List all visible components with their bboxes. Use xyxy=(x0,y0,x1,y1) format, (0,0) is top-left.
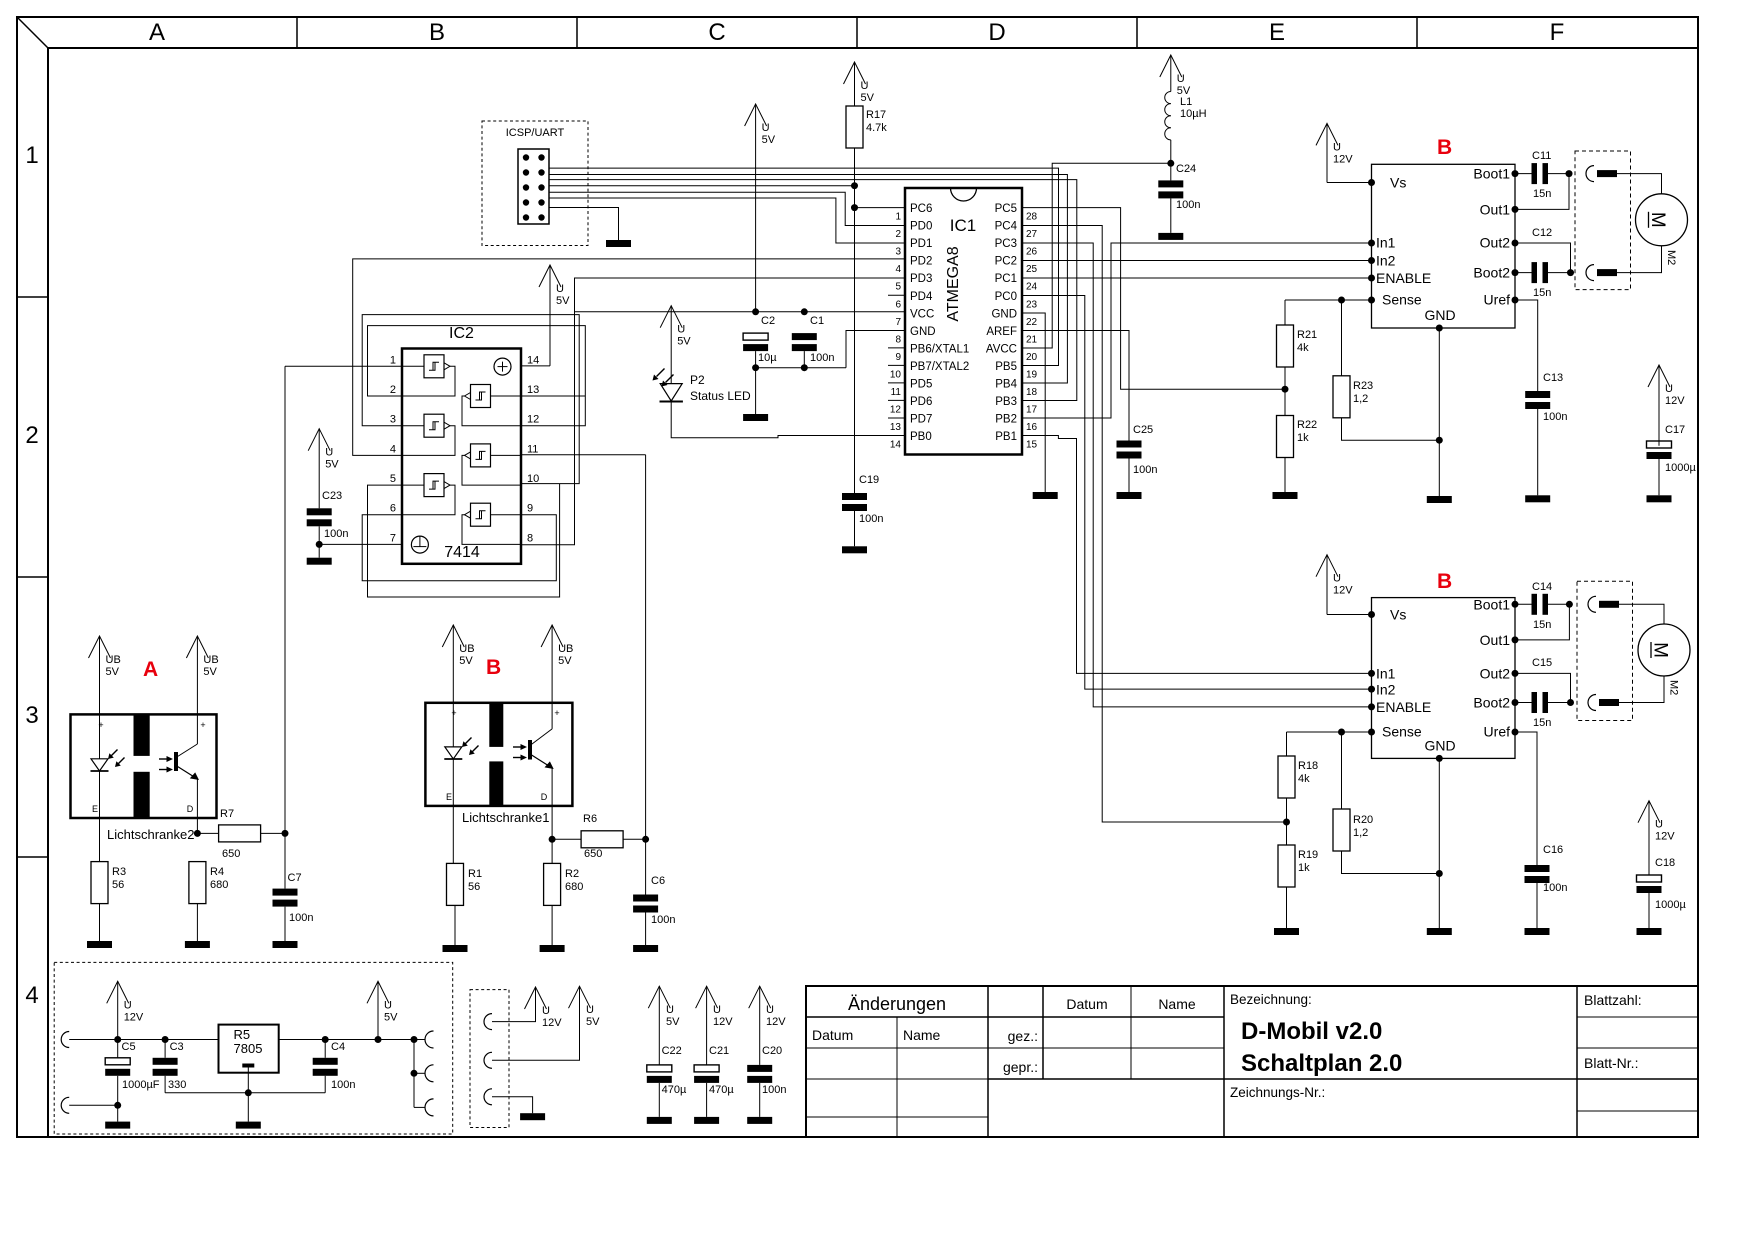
wire IC1 pin 10 stub xyxy=(888,364,905,366)
svg-text:PC2: PC2 xyxy=(995,256,1017,268)
svg-text:U: U xyxy=(124,999,132,1011)
ground R19 xyxy=(1274,928,1299,935)
driver B2 pin labels xyxy=(1376,596,1510,753)
led Lichtschranke2 emitter xyxy=(91,750,125,862)
driver B2 pin dots xyxy=(1368,601,1519,762)
svg-text:PD1: PD1 xyxy=(910,238,932,250)
svg-text:UB: UB xyxy=(558,643,573,655)
title block text D-Mobil v2.0 xyxy=(1241,1018,1382,1045)
capacitor C16 xyxy=(1525,844,1568,928)
svg-text:U: U xyxy=(1333,141,1341,153)
svg-text:PB2: PB2 xyxy=(995,413,1017,425)
svg-text:C23: C23 xyxy=(322,490,342,502)
title block label Blatt-Nr.: xyxy=(1584,1055,1638,1071)
connector motor 2 pin A xyxy=(1588,596,1619,612)
title block label Bezeichnung: xyxy=(1230,992,1312,1007)
svg-text:PD4: PD4 xyxy=(910,291,933,303)
ground C22 xyxy=(647,1117,672,1124)
svg-text:UB: UB xyxy=(106,654,121,666)
svg-text:10µ: 10µ xyxy=(758,352,777,364)
power U 12V P1 xyxy=(525,987,563,1029)
svg-text:56: 56 xyxy=(112,879,124,891)
svg-text:D: D xyxy=(541,792,548,802)
capacitor C24 xyxy=(1158,163,1200,233)
svg-text:M2: M2 xyxy=(1665,250,1677,265)
capacitor C6 xyxy=(633,839,675,945)
svg-text:AREF: AREF xyxy=(986,326,1017,338)
svg-text:R23: R23 xyxy=(1353,380,1373,392)
junction R18 R19 xyxy=(1283,819,1290,826)
svg-text:Out1: Out1 xyxy=(1480,632,1511,648)
svg-text:C1: C1 xyxy=(810,315,824,327)
svg-text:C2: C2 xyxy=(761,315,775,327)
svg-text:100n: 100n xyxy=(651,914,675,926)
svg-text:12V: 12V xyxy=(1333,585,1353,597)
connector 5V output pin 2 xyxy=(425,1065,434,1082)
svg-text:R22: R22 xyxy=(1297,419,1317,431)
svg-text:100n: 100n xyxy=(762,1084,786,1096)
svg-text:Uref: Uref xyxy=(1484,724,1511,740)
svg-text:R7: R7 xyxy=(220,808,234,820)
svg-text:16: 16 xyxy=(1026,422,1038,433)
motor M2 upper xyxy=(1636,194,1688,265)
power UB 5V LS2 transistor xyxy=(186,636,218,740)
capacitor C1 xyxy=(792,315,835,368)
wire IC1 pin 13 stub xyxy=(888,417,905,419)
junction AVCC C24 xyxy=(1167,160,1174,167)
svg-text:Uref: Uref xyxy=(1484,292,1511,308)
svg-text:U: U xyxy=(677,324,685,336)
svg-text:In1: In1 xyxy=(1376,665,1396,681)
label Lichtschranke2 xyxy=(107,827,194,842)
svg-text:ENABLE: ENABLE xyxy=(1376,270,1431,286)
wire IC1 pin 12 stub xyxy=(888,399,905,401)
svg-text:5V: 5V xyxy=(762,134,776,146)
capacitor C3 xyxy=(153,1040,187,1093)
svg-text:R3: R3 xyxy=(112,866,126,878)
svg-text:A: A xyxy=(149,19,165,46)
svg-text:U: U xyxy=(713,1004,721,1016)
wire B2 Out2 xyxy=(1515,673,1571,702)
title block label Zeichnungs-Nr.: xyxy=(1230,1085,1325,1100)
gate IC2 inverter A pins 1-2 xyxy=(402,355,455,396)
wire IC2 pin 3 to pin 10 loop xyxy=(362,315,579,484)
svg-text:21: 21 xyxy=(1026,334,1038,345)
svg-text:1: 1 xyxy=(390,354,396,366)
svg-text:F: F xyxy=(1550,19,1565,46)
ground R2 xyxy=(540,945,565,952)
svg-text:8: 8 xyxy=(895,334,901,345)
power UB 5V LS1 led xyxy=(442,625,474,747)
junction LS2 output xyxy=(194,830,201,837)
column dividers xyxy=(297,17,1417,48)
svg-text:Out2: Out2 xyxy=(1480,665,1511,681)
svg-text:U: U xyxy=(861,80,869,92)
svg-text:R6: R6 xyxy=(583,813,597,825)
svg-text:Schaltplan 2.0: Schaltplan 2.0 xyxy=(1241,1050,1402,1077)
svg-text:Blattzahl:: Blattzahl: xyxy=(1584,992,1642,1008)
svg-text:100n: 100n xyxy=(810,352,834,364)
svg-text:U: U xyxy=(666,1004,674,1016)
resistor R2 xyxy=(544,839,584,945)
ground R1 xyxy=(443,945,468,952)
capacitor C2 xyxy=(743,315,777,368)
ground C23 xyxy=(307,558,332,565)
svg-text:1: 1 xyxy=(25,142,38,169)
svg-text:R17: R17 xyxy=(866,109,886,121)
capacitor C15 xyxy=(1515,657,1571,729)
svg-text:R5: R5 xyxy=(234,1027,251,1042)
title block label Aenderungen xyxy=(848,994,946,1014)
svg-text:5V: 5V xyxy=(384,1011,398,1023)
svg-text:R19: R19 xyxy=(1298,849,1318,861)
svg-text:gez.:: gez.: xyxy=(1008,1028,1038,1044)
wire IC2 pin 13 xyxy=(521,395,585,397)
gate IC2 inverter B pins 3-4 xyxy=(402,414,455,455)
svg-text:PD5: PD5 xyxy=(910,378,932,390)
svg-text:680: 680 xyxy=(210,879,228,891)
svg-text:PD6: PD6 xyxy=(910,396,932,408)
svg-text:U: U xyxy=(762,122,770,134)
motor M2 lower xyxy=(1638,624,1690,695)
ground C21 xyxy=(694,1117,719,1124)
wire B2 Out1 xyxy=(1515,604,1569,640)
resistor R17 xyxy=(846,106,887,148)
svg-text:E: E xyxy=(1269,19,1285,46)
svg-text:In1: In1 xyxy=(1376,235,1396,251)
junction C1 top xyxy=(801,308,808,315)
svg-text:Boot2: Boot2 xyxy=(1473,695,1510,711)
connector motor 2 dashed box xyxy=(1577,581,1633,720)
svg-text:ENABLE: ENABLE xyxy=(1376,699,1431,715)
svg-text:4k: 4k xyxy=(1298,773,1310,785)
ground C20 xyxy=(747,1117,772,1124)
svg-text:13: 13 xyxy=(890,422,902,433)
capacitor C18 xyxy=(1637,857,1687,928)
junction C5 bottom xyxy=(114,1102,121,1109)
svg-text:15n: 15n xyxy=(1533,188,1551,200)
resistor R23 xyxy=(1333,300,1439,440)
label B1 red B xyxy=(1437,136,1452,159)
svg-text:2: 2 xyxy=(390,384,396,396)
ground C25 xyxy=(1117,492,1142,499)
svg-text:27: 27 xyxy=(1026,229,1038,240)
svg-text:9: 9 xyxy=(527,503,533,515)
svg-text:PD3: PD3 xyxy=(910,273,932,285)
svg-text:7414: 7414 xyxy=(444,544,480,561)
svg-text:12V: 12V xyxy=(124,1011,144,1023)
svg-text:5V: 5V xyxy=(558,655,572,667)
power U 12V C17 xyxy=(1648,365,1685,446)
connector motor 1 dashed box xyxy=(1575,151,1631,290)
svg-text:12: 12 xyxy=(527,414,539,426)
svg-text:28: 28 xyxy=(1026,212,1038,223)
svg-text:Lichtschranke1: Lichtschranke1 xyxy=(462,810,549,825)
svg-text:PD0: PD0 xyxy=(910,221,932,233)
connector 5V output pin 1 xyxy=(425,1031,434,1048)
svg-text:100n: 100n xyxy=(331,1079,355,1091)
connector 12V input pin 1 xyxy=(61,1032,118,1048)
svg-text:Sense: Sense xyxy=(1382,292,1422,308)
junction C3 top xyxy=(162,1036,169,1043)
ground C13 xyxy=(1525,495,1550,502)
svg-text:10: 10 xyxy=(890,369,902,380)
svg-text:1,2: 1,2 xyxy=(1353,827,1368,839)
led P2 Status LED xyxy=(653,369,752,404)
svg-text:12V: 12V xyxy=(713,1016,733,1028)
svg-text:PC5: PC5 xyxy=(995,203,1017,215)
wire IC1 pin 9 stub xyxy=(888,347,905,349)
inductor L1 xyxy=(1165,92,1207,181)
svg-text:22: 22 xyxy=(1026,317,1038,328)
svg-text:5V: 5V xyxy=(459,655,473,667)
junction LS1 output xyxy=(549,836,556,843)
ground C6 xyxy=(633,945,658,952)
ground C17 xyxy=(1647,495,1672,502)
wire IC2 pin 2 to pin 12 loop xyxy=(368,326,586,426)
resistor R20 xyxy=(1333,732,1439,874)
wire ICSP line 2 to PB4 pin 18 xyxy=(549,175,1067,384)
svg-text:C20: C20 xyxy=(762,1045,782,1057)
svg-text:C3: C3 xyxy=(170,1041,184,1053)
column labels A-F xyxy=(149,19,1564,46)
svg-text:PD2: PD2 xyxy=(910,256,932,268)
wire B1 Vs supply xyxy=(1327,182,1372,184)
ic IC1 left pin numbers 1-14 xyxy=(890,212,902,451)
resistor R3 xyxy=(91,862,126,941)
connector ICSP/UART pin header xyxy=(518,149,549,224)
svg-text:C17: C17 xyxy=(1665,424,1685,436)
svg-text:Blatt-Nr.:: Blatt-Nr.: xyxy=(1584,1055,1638,1071)
wire IC2 pin 14 VCC xyxy=(521,365,550,367)
svg-text:PC3: PC3 xyxy=(995,238,1017,250)
driver B1 pin labels xyxy=(1376,166,1510,324)
svg-text:6: 6 xyxy=(895,299,901,310)
connector P1 pin 1 xyxy=(484,1009,536,1030)
svg-text:100n: 100n xyxy=(1176,199,1200,211)
svg-text:5V: 5V xyxy=(556,295,570,307)
power U 5V P2 xyxy=(660,306,691,384)
svg-text:1: 1 xyxy=(895,212,901,223)
svg-text:E: E xyxy=(446,792,452,802)
svg-text:8: 8 xyxy=(527,532,533,544)
capacitor C4 xyxy=(313,1040,356,1093)
svg-text:3: 3 xyxy=(390,414,396,426)
capacitor C19 xyxy=(842,474,883,546)
svg-text:Out2: Out2 xyxy=(1480,235,1511,251)
capacitor C5 xyxy=(105,1040,160,1122)
svg-text:D: D xyxy=(187,804,194,814)
connector P1 dashed box xyxy=(470,990,509,1128)
wire AREF pin 21 to C25 xyxy=(1022,331,1129,441)
svg-text:15n: 15n xyxy=(1533,619,1551,631)
ground P1 xyxy=(520,1113,545,1120)
svg-text:15n: 15n xyxy=(1533,287,1551,299)
regulator R5 7805 xyxy=(219,1025,279,1073)
junction C11 Out1 xyxy=(1566,170,1573,177)
svg-text:IC1: IC1 xyxy=(950,216,976,235)
svg-text:1000µ: 1000µ xyxy=(1655,899,1686,911)
ic IC1 right pin names xyxy=(986,203,1018,443)
svg-text:100n: 100n xyxy=(324,528,348,540)
svg-text:100n: 100n xyxy=(1133,464,1157,476)
svg-text:470µ: 470µ xyxy=(709,1084,734,1096)
svg-text:C12: C12 xyxy=(1532,227,1552,239)
svg-text:1000µ: 1000µ xyxy=(1665,462,1696,474)
resistor R21 xyxy=(1277,300,1318,389)
svg-text:Boot2: Boot2 xyxy=(1473,265,1510,281)
label B2 red B xyxy=(1437,570,1452,593)
svg-text:5V: 5V xyxy=(666,1016,680,1028)
ground R22 xyxy=(1273,492,1298,499)
junction output pin 2 xyxy=(411,1070,418,1077)
svg-text:5: 5 xyxy=(895,282,901,293)
wire IC2 pin 4 to IC1 PD2 xyxy=(353,259,905,456)
svg-text:4: 4 xyxy=(25,982,38,1009)
svg-text:7: 7 xyxy=(390,532,396,544)
svg-text:U: U xyxy=(1665,383,1673,395)
svg-text:M2: M2 xyxy=(1668,680,1680,695)
junction B2 GND R20 xyxy=(1436,870,1443,877)
power U 12V B2 xyxy=(1316,555,1353,615)
svg-text:26: 26 xyxy=(1026,247,1038,258)
svg-text:U: U xyxy=(1655,819,1663,831)
svg-text:R2: R2 xyxy=(565,868,579,880)
svg-text:C14: C14 xyxy=(1532,581,1552,593)
svg-text:C: C xyxy=(708,19,725,46)
ic IC2 left pin numbers 1-7 xyxy=(390,354,396,544)
svg-text:B: B xyxy=(429,19,445,46)
svg-text:7: 7 xyxy=(895,317,901,328)
wire ICSP line 4 reset to R17 node xyxy=(549,185,855,187)
optocoupler Lichtschranke1 body xyxy=(425,703,572,806)
resistor R4 xyxy=(189,862,228,941)
svg-text:5: 5 xyxy=(390,473,396,485)
wire PC5 pin 28 to R21 R22 divider xyxy=(1022,208,1285,390)
gate IC2 inverter E pins 11-10 xyxy=(462,444,521,485)
svg-text:1k: 1k xyxy=(1297,432,1309,444)
svg-text:U: U xyxy=(384,999,392,1011)
capacitor C17 xyxy=(1647,424,1697,495)
junction C14 Out1 xyxy=(1566,601,1573,608)
ic IC2 7414 body xyxy=(402,325,521,564)
svg-text:U: U xyxy=(542,1005,550,1017)
svg-text:5V: 5V xyxy=(861,92,875,104)
svg-text:GND: GND xyxy=(1424,738,1455,754)
ground C1 C2 xyxy=(743,414,768,421)
svg-text:4.7k: 4.7k xyxy=(866,122,887,134)
phototransistor Lichtschranke2 xyxy=(159,740,199,833)
svg-text:Boot1: Boot1 xyxy=(1473,596,1510,612)
svg-text:12V: 12V xyxy=(1655,831,1675,843)
wire PB1 pin 15 to driver B2 In1 xyxy=(1022,436,1372,674)
svg-text:PC4: PC4 xyxy=(995,221,1018,233)
svg-text:L1: L1 xyxy=(1180,96,1192,108)
svg-text:In2: In2 xyxy=(1376,253,1396,269)
svg-text:1000µF: 1000µF xyxy=(122,1079,160,1091)
svg-text:13: 13 xyxy=(527,384,539,396)
svg-text:C24: C24 xyxy=(1176,163,1196,175)
junction B1 GND R23 xyxy=(1436,437,1443,444)
svg-text:24: 24 xyxy=(1026,282,1038,293)
power U 12V C21 xyxy=(696,986,734,1065)
svg-text:Sense: Sense xyxy=(1382,724,1422,740)
svg-text:B: B xyxy=(1437,570,1452,593)
capacitor C7 xyxy=(273,833,314,941)
capacitor C25 xyxy=(1117,424,1158,492)
svg-text:PB3: PB3 xyxy=(995,396,1017,408)
svg-text:U: U xyxy=(1333,573,1341,585)
power U 5V C22 xyxy=(648,986,680,1065)
svg-text:Lichtschranke2: Lichtschranke2 xyxy=(107,827,194,842)
wire PC4 pin 27 to R18 R19 divider xyxy=(1022,226,1287,823)
ground C19 xyxy=(842,546,867,553)
svg-text:U: U xyxy=(586,1004,594,1016)
svg-text:56: 56 xyxy=(468,881,480,893)
svg-text:R1: R1 xyxy=(468,868,482,880)
gate IC2 inverter C pins 5-6 xyxy=(402,474,455,515)
svg-text:2: 2 xyxy=(25,422,38,449)
title block label Name xyxy=(903,1027,941,1043)
ground C5 xyxy=(105,1122,130,1129)
svg-text:B: B xyxy=(1437,136,1452,159)
title block left section lines xyxy=(806,986,988,1137)
svg-text:5V: 5V xyxy=(586,1016,600,1028)
svg-text:4: 4 xyxy=(390,443,396,455)
svg-text:U: U xyxy=(556,283,564,295)
ic IC2 ground symbol xyxy=(411,536,428,553)
ic IC2 power plus symbol xyxy=(494,358,511,375)
power U 5V output xyxy=(367,981,398,1039)
title block right section lines xyxy=(1224,986,1698,1137)
junction C15 Out2 xyxy=(1567,699,1574,706)
wire B1 GND down xyxy=(1438,328,1440,496)
junction C5 top xyxy=(114,1036,121,1043)
svg-text:PC0: PC0 xyxy=(995,291,1017,303)
svg-text:R21: R21 xyxy=(1297,329,1317,341)
svg-text:PB7/XTAL2: PB7/XTAL2 xyxy=(910,361,969,373)
gate IC2 inverter F pins 9-8 xyxy=(462,503,521,544)
power U 5V R17 xyxy=(844,62,875,106)
wire IC1 pin 11 stub xyxy=(888,382,905,384)
svg-text:PB1: PB1 xyxy=(995,431,1017,443)
wire B1 Uref to C13 xyxy=(1515,300,1538,391)
title block frame xyxy=(806,986,1698,1137)
wire R5 output 5V xyxy=(279,1039,426,1041)
title block header Datum xyxy=(1066,996,1107,1012)
resistor R6 xyxy=(552,813,646,860)
svg-text:GND: GND xyxy=(1424,307,1455,323)
wire IC1 pin 6 stub xyxy=(888,294,905,296)
capacitor C11 xyxy=(1515,150,1569,200)
title block label Blattzahl: xyxy=(1584,992,1642,1008)
wire B1 Out2 xyxy=(1515,243,1571,273)
svg-text:2: 2 xyxy=(895,229,901,240)
svg-text:AVCC: AVCC xyxy=(986,343,1017,355)
svg-text:PB5: PB5 xyxy=(995,361,1017,373)
resistor R1 xyxy=(447,863,483,945)
wire P2 to PB0 pin 14 xyxy=(671,402,905,438)
svg-text:gepr.:: gepr.: xyxy=(1003,1059,1038,1075)
wire B1 Out1 xyxy=(1515,174,1569,210)
svg-text:7805: 7805 xyxy=(234,1041,263,1056)
wire 12V to C3 and R5 xyxy=(118,1039,219,1041)
optocoupler Lichtschranke2 body xyxy=(71,714,217,818)
power U 5V P1 xyxy=(569,986,601,1028)
junction C2 bottom xyxy=(752,364,759,371)
svg-text:10µH: 10µH xyxy=(1180,108,1207,120)
junction C12 Out2 xyxy=(1567,269,1574,276)
